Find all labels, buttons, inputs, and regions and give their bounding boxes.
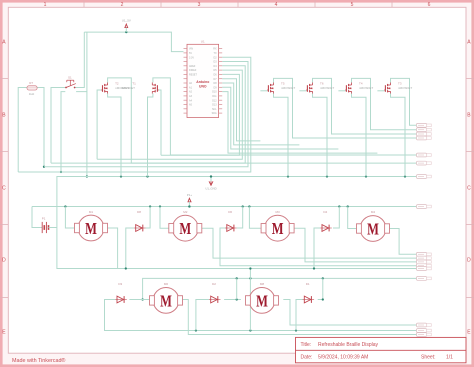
svg-text:S1: S1 bbox=[68, 76, 72, 80]
wire M3 right to connector bbox=[291, 228, 417, 262]
made-with note bbox=[12, 357, 65, 364]
connector J7 bbox=[417, 175, 432, 179]
wire switch S1 left contact bbox=[51, 88, 66, 164]
node bottom rail junctions bbox=[195, 329, 297, 331]
svg-text:R7: R7 bbox=[29, 81, 33, 85]
svg-text:D12: D12 bbox=[212, 99, 217, 102]
svg-text:nMOSFET: nMOSFET bbox=[320, 86, 334, 90]
svg-text:nMOSFET: nMOSFET bbox=[121, 86, 135, 90]
wire M8 right to connector bbox=[283, 300, 416, 326]
transistor T4 bbox=[345, 82, 373, 94]
wire T1 gate bbox=[158, 90, 161, 155]
svg-text:P1+: P1+ bbox=[187, 193, 193, 197]
transistor T2 bbox=[101, 82, 129, 94]
svg-text:D10: D10 bbox=[212, 91, 217, 94]
title block bbox=[296, 337, 467, 362]
diode D1 bbox=[303, 282, 315, 303]
node supply rail junctions bbox=[64, 205, 349, 207]
svg-text:3.3V: 3.3V bbox=[189, 56, 194, 59]
transistor T3 bbox=[384, 82, 412, 94]
wire T3 source to GND rail bbox=[391, 94, 406, 177]
transistor T1 bbox=[121, 82, 159, 94]
wire T1 source to GND rail bbox=[148, 94, 153, 177]
svg-text:VIN: VIN bbox=[189, 48, 193, 51]
svg-text:5: 5 bbox=[351, 2, 354, 8]
svg-text:D6: D6 bbox=[228, 210, 232, 214]
battery P1 bbox=[41, 216, 50, 233]
wire T4 source to GND rail bbox=[352, 94, 367, 177]
connector J14 bbox=[417, 277, 432, 281]
svg-text:D3: D3 bbox=[118, 282, 122, 286]
svg-text:D13: D13 bbox=[212, 104, 217, 107]
svg-text:4: 4 bbox=[275, 2, 278, 8]
wire row2 supply rail bbox=[141, 278, 416, 300]
svg-text:T4: T4 bbox=[359, 82, 363, 86]
wire D2 cathode up bbox=[236, 278, 238, 299]
wire D1 anode down bbox=[296, 300, 303, 331]
svg-text:RX: RX bbox=[213, 48, 217, 51]
connector J11 bbox=[417, 260, 432, 264]
wire T6 source to GND rail bbox=[313, 94, 328, 177]
connector J3 bbox=[417, 132, 432, 136]
node row2 rail junctions bbox=[236, 277, 324, 279]
wire switch S1 left lower pin bbox=[60, 92, 65, 174]
connector J17 bbox=[417, 333, 432, 337]
svg-text:5/9/2024, 10:09:39 AM: 5/9/2024, 10:09:39 AM bbox=[318, 355, 368, 361]
svg-text:AREF: AREF bbox=[189, 65, 196, 68]
wire T6 drain to connector bbox=[313, 78, 417, 134]
svg-text:nMOSFET: nMOSFET bbox=[398, 86, 412, 90]
motor M8 bbox=[246, 282, 279, 313]
svg-text:D1: D1 bbox=[306, 282, 310, 286]
svg-text:Arduino: Arduino bbox=[196, 80, 209, 84]
wire T6 gate bbox=[299, 90, 306, 92]
wire T2 gate bbox=[97, 90, 102, 159]
diode D8 bbox=[134, 210, 146, 231]
wire 5V rail bbox=[84, 32, 183, 52]
wire D4 anode down bbox=[313, 228, 320, 270]
wire D2 anode down bbox=[196, 300, 209, 331]
connector J16 bbox=[417, 329, 432, 333]
svg-text:D11: D11 bbox=[212, 95, 217, 98]
svg-text:U1_5V: U1_5V bbox=[122, 19, 131, 23]
connector J2 bbox=[417, 128, 432, 132]
svg-text:6: 6 bbox=[428, 2, 431, 8]
wire switch S1 right lower pin down bbox=[76, 32, 88, 178]
wire GND rail upper bbox=[18, 57, 251, 172]
svg-text:T1: T1 bbox=[132, 82, 136, 86]
svg-text:D4: D4 bbox=[323, 210, 327, 214]
wire battery negative bbox=[50, 227, 57, 229]
svg-text:C: C bbox=[2, 186, 6, 192]
svg-text:M4: M4 bbox=[371, 210, 375, 214]
svg-text:Sheet:: Sheet: bbox=[421, 355, 435, 361]
node GND rail junctions bbox=[120, 175, 406, 177]
wire T5 source to GND rail bbox=[274, 94, 289, 177]
svg-text:M: M bbox=[256, 291, 268, 310]
wire M1 left to rail bbox=[65, 207, 74, 229]
wire T3 gate bbox=[377, 90, 384, 92]
transistor T6 bbox=[306, 82, 334, 94]
svg-text:2: 2 bbox=[121, 2, 124, 8]
svg-text:nMOSFET: nMOSFET bbox=[281, 86, 295, 90]
wire U1 pin fan-out 2 bbox=[44, 62, 248, 167]
connector J1 bbox=[417, 123, 432, 127]
connector J10 bbox=[417, 256, 432, 260]
svg-text:SDA: SDA bbox=[212, 112, 217, 115]
wire D1 cathode up bbox=[318, 278, 324, 300]
wire M2 left to rail bbox=[160, 207, 173, 229]
svg-text:IOREF: IOREF bbox=[189, 69, 197, 72]
svg-text:U1_GND: U1_GND bbox=[205, 187, 216, 191]
wire switch S1 right contact to 5V rail bbox=[75, 32, 84, 87]
svg-text:nMOSFET: nMOSFET bbox=[359, 86, 373, 90]
svg-text:3: 3 bbox=[198, 2, 201, 8]
wire resistor R7 left lead down bbox=[18, 88, 27, 173]
svg-text:M3: M3 bbox=[276, 210, 280, 214]
wire T5 drain to connector bbox=[274, 78, 417, 138]
wire U1 pin fan-out 8 bbox=[222, 87, 338, 149]
connector J13 bbox=[417, 267, 432, 271]
wire U1 pin fan-out 4 bbox=[97, 70, 242, 159]
svg-text:M6: M6 bbox=[164, 282, 168, 286]
connector J15 bbox=[417, 323, 432, 327]
svg-text:1/1: 1/1 bbox=[446, 355, 453, 361]
svg-text:T2: T2 bbox=[115, 82, 119, 86]
power flag U1_5V bbox=[122, 19, 131, 33]
svg-text:D: D bbox=[2, 258, 6, 264]
wire U1 pin fan-out 3 bbox=[51, 66, 245, 163]
wire D6 anode down bbox=[220, 228, 417, 266]
diode D3 bbox=[115, 282, 127, 303]
svg-text:SCL: SCL bbox=[212, 108, 217, 111]
wire T1 drain to connector bbox=[153, 78, 417, 155]
svg-text:T3: T3 bbox=[398, 82, 402, 86]
svg-text:M: M bbox=[160, 291, 172, 310]
svg-text:M8: M8 bbox=[260, 282, 264, 286]
connector J6 bbox=[417, 161, 432, 165]
svg-text:RESET: RESET bbox=[189, 74, 198, 77]
svg-text:D8: D8 bbox=[137, 210, 141, 214]
wire U1 pin fan-out 7 bbox=[222, 83, 299, 145]
motor M1 bbox=[75, 210, 108, 241]
svg-text:Made with Tinkercad®: Made with Tinkercad® bbox=[12, 357, 65, 364]
svg-text:M1: M1 bbox=[89, 210, 93, 214]
connector J9 bbox=[417, 252, 432, 256]
svg-text:P1: P1 bbox=[42, 216, 46, 220]
wire M6 right to connector bbox=[180, 300, 416, 335]
power flag P1+ bbox=[187, 193, 193, 208]
svg-text:5V: 5V bbox=[189, 52, 192, 55]
wire M4 left to rail bbox=[348, 207, 359, 229]
svg-text:1kΩ: 1kΩ bbox=[29, 92, 35, 96]
wire T4 drain to connector bbox=[352, 78, 417, 129]
pushbutton S1 bbox=[65, 76, 76, 89]
svg-text:M2: M2 bbox=[183, 210, 187, 214]
motor M4 bbox=[357, 210, 390, 241]
wire T3 drain to connector bbox=[391, 78, 417, 125]
wire motor supply rail P1+ bbox=[32, 206, 417, 208]
diode D2 bbox=[209, 282, 221, 303]
connector J8 bbox=[417, 205, 432, 209]
wire T5 gate bbox=[260, 90, 267, 92]
wire T4 gate bbox=[338, 90, 345, 92]
wire resistor R7 right lead down bbox=[37, 88, 45, 168]
svg-text:1: 1 bbox=[44, 2, 47, 8]
wire D3 anode down and bottom rail bbox=[105, 300, 417, 331]
wire U1 pin fan-out 6 bbox=[222, 79, 260, 141]
wire D4 cathode up bbox=[333, 207, 339, 229]
node U1_5V junction bbox=[125, 31, 127, 33]
diode D4 bbox=[320, 210, 332, 231]
wire U1 pin fan-out 9 bbox=[222, 92, 377, 154]
wire D6 cathode up bbox=[237, 207, 243, 229]
wire D3 cathode to M6 bbox=[129, 299, 151, 301]
connector J5 bbox=[417, 153, 432, 157]
wire inter-row link bbox=[249, 267, 251, 330]
wire T2 drain to connector bbox=[108, 78, 417, 163]
svg-text:M: M bbox=[367, 220, 379, 239]
wire T2 source to GND rail bbox=[108, 94, 121, 177]
svg-text:D2: D2 bbox=[212, 282, 216, 286]
microcontroller U1 Arduino UNO bbox=[184, 40, 223, 118]
wire M4 right to connector bbox=[388, 229, 417, 255]
ground U1_GND bbox=[205, 175, 216, 190]
wire M1 right down bbox=[108, 228, 118, 269]
motor M3 bbox=[261, 210, 294, 241]
svg-text:C: C bbox=[467, 186, 471, 192]
resistor R7 bbox=[27, 81, 37, 96]
connector J4 bbox=[417, 136, 432, 140]
svg-text:Refreshable Braille Display: Refreshable Braille Display bbox=[318, 342, 379, 348]
wire U1 pin fan-out 5 bbox=[161, 74, 239, 155]
transistor T5 bbox=[267, 82, 295, 94]
svg-text:U1: U1 bbox=[201, 40, 205, 44]
wire GND rail lower and bottom common rail bbox=[57, 177, 417, 269]
svg-text:T5: T5 bbox=[281, 82, 285, 86]
wire D2 cathode to M8 bbox=[224, 298, 241, 300]
diode D6 bbox=[225, 210, 237, 231]
wire D8 cathode up bbox=[146, 207, 151, 229]
svg-text:TX: TX bbox=[214, 52, 217, 55]
wire D8 anode down bbox=[125, 228, 134, 270]
svg-text:Title:: Title: bbox=[301, 342, 312, 348]
wire battery positive bbox=[32, 207, 41, 228]
svg-text:Date:: Date: bbox=[301, 355, 313, 361]
connector J12 bbox=[417, 264, 432, 268]
svg-text:M: M bbox=[85, 219, 97, 238]
svg-text:T6: T6 bbox=[320, 82, 324, 86]
svg-text:D: D bbox=[467, 258, 471, 264]
svg-text:M: M bbox=[179, 219, 191, 238]
wire M2 right to connector bbox=[198, 228, 416, 258]
svg-text:UNO: UNO bbox=[199, 84, 207, 88]
svg-text:M: M bbox=[272, 219, 284, 238]
motor M6 bbox=[150, 282, 183, 313]
wire M3 left to rail bbox=[249, 207, 264, 229]
motor M2 bbox=[169, 210, 202, 241]
